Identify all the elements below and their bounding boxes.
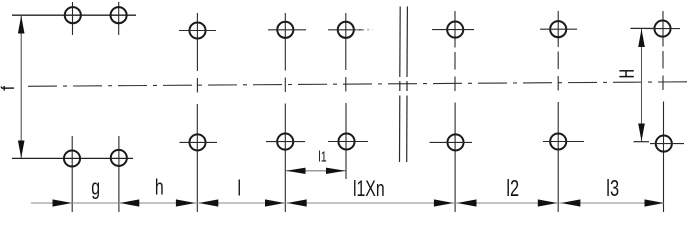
- arrow left at C (l left): [199, 199, 219, 206]
- l1 right arrow: [326, 168, 345, 174]
- axis line column B (x=118.9) top stub: [118, 2, 120, 35]
- hole A bottom: [64, 150, 80, 166]
- arrow right at A (g left): [53, 199, 73, 206]
- svg-text:l1Xn: l1Xn: [353, 178, 385, 202]
- bottom dimension chain line: [31, 202, 664, 204]
- hole B top: [111, 7, 127, 23]
- arrow right at G (l2 right): [538, 199, 558, 206]
- hole D bottom: [266, 134, 305, 150]
- bottom-left datum line through lower hole pair: [12, 157, 133, 159]
- arrow right at F (l1Xn right): [434, 199, 454, 206]
- arrow down (H bottom): [638, 124, 645, 142]
- svg-text:g: g: [91, 176, 100, 200]
- axis line column C (x=197.3): [196, 13, 198, 212]
- hole F bottom: [430, 134, 473, 150]
- axis line column H (x=663.3): [662, 11, 665, 212]
- axis line column D (x=285.3): [284, 13, 286, 212]
- svg-text:l2: l2: [506, 176, 519, 201]
- hole G top: [540, 21, 577, 37]
- arrow right at D (l right): [265, 199, 285, 206]
- axis line column F (x=454.8): [454, 11, 456, 212]
- hole G bottom: [543, 133, 584, 149]
- arrow left at G (l3 left): [561, 199, 581, 206]
- vertical dimension line f (left): [20, 15, 22, 158]
- label f (rotated): [1, 86, 14, 91]
- label H (rotated): [619, 71, 633, 77]
- arrow left at D (l1Xn left): [287, 199, 307, 206]
- svg-text:l: l: [237, 177, 241, 201]
- break line left: [399, 7, 402, 163]
- hole C bottom: [180, 134, 218, 150]
- hole E bottom: [328, 133, 368, 149]
- axis line column E (x=345.8, stops below l1 dimension): [345, 13, 347, 179]
- arrow up (f top): [18, 16, 25, 34]
- hole B bottom: [111, 150, 127, 166]
- hole E top: [328, 22, 364, 38]
- hole C top: [179, 22, 216, 38]
- arrow left at F (l2 left): [457, 199, 477, 206]
- svg-text:l1: l1: [318, 148, 326, 165]
- hole D top: [268, 22, 306, 38]
- H top tick: [631, 27, 655, 29]
- vertical dimension line H (right): [641, 28, 643, 141]
- H bottom tick: [634, 141, 650, 143]
- svg-text:l3: l3: [606, 176, 619, 201]
- l1 dimension line: [286, 170, 346, 172]
- hole H bottom: [650, 136, 684, 152]
- centerline (horizontal dash-dot axis): [28, 82, 688, 87]
- arrow up (H top): [638, 29, 645, 47]
- arrow right at H (l3 right): [645, 199, 665, 206]
- arrow right at C (h right): [176, 199, 196, 206]
- axis line column B bottom + extension: [118, 136, 120, 212]
- hole A top: [65, 7, 81, 23]
- l1 left arrow: [286, 168, 305, 174]
- hole H top: [645, 21, 680, 37]
- hole F top: [432, 22, 474, 38]
- axis line column A (x=72.3) top stub: [72, 2, 74, 35]
- axis line column A bottom + extension to dimension chain: [71, 136, 73, 212]
- faint crosshair extension right of hole E top: [356, 29, 373, 31]
- break line right: [406, 7, 409, 163]
- arrow left at B (g right / h left): [120, 199, 140, 206]
- arrow down (f bottom): [18, 141, 25, 159]
- top-left datum line through upper hole pair: [12, 14, 136, 16]
- axis line column G (x=558.2): [557, 11, 559, 212]
- svg-text:h: h: [155, 176, 164, 200]
